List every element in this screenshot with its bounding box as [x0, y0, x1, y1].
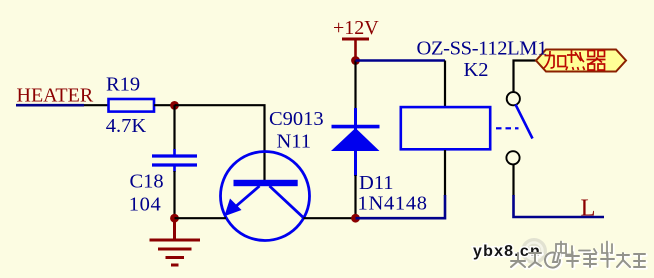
- svg-text:L: L: [581, 195, 596, 222]
- svg-text:1N4148: 1N4148: [358, 193, 428, 215]
- svg-text:ybx8.cn: ybx8.cn: [473, 243, 541, 260]
- wire emitter to ground junction: [175, 217, 227, 219]
- wire L net (navy): [514, 195, 605, 217]
- wire C18 bottom to ground junction: [173, 166, 176, 172]
- node ground junction: [170, 214, 179, 223]
- svg-text:C9013: C9013: [269, 108, 324, 130]
- wire switch common pin to flag: [514, 61, 537, 93]
- svg-text:R19: R19: [106, 74, 140, 96]
- wire +12V to relay coil top (navy): [356, 59, 446, 62]
- wire relay bottom pin: [444, 150, 446, 196]
- node +12V junction: [351, 56, 360, 65]
- svg-text:D11: D11: [359, 172, 394, 194]
- wire junction to transistor base (top run): [175, 105, 265, 181]
- wire R19 right pin: [154, 104, 176, 106]
- svg-text:104: 104: [129, 194, 162, 216]
- wire junction to C18 top: [173, 105, 175, 150]
- svg-text:C18: C18: [130, 171, 164, 193]
- svg-text:OZ-SS-112LM1: OZ-SS-112LM1: [417, 37, 548, 59]
- glyph 器: [587, 51, 606, 71]
- transistor Q N11 C9013: [221, 152, 310, 241]
- svg-text:K2: K2: [464, 59, 489, 81]
- wire relay bottom to junction (navy): [356, 195, 446, 218]
- wire +12V junction to diode cathode: [354, 61, 356, 113]
- resistor R19: [109, 99, 155, 112]
- switch contact top: [507, 92, 520, 105]
- glyph 加: [544, 51, 566, 68]
- switch blade: [516, 105, 533, 139]
- port flag 加热器: [536, 50, 626, 72]
- svg-text:HEATER: HEATER: [17, 85, 94, 107]
- wire switch bottom pin: [512, 164, 514, 196]
- watermark logo circle: [521, 238, 547, 264]
- node bottom junction: [351, 214, 360, 223]
- wire R19 left pin: [84, 104, 108, 106]
- capacitor C18: [152, 156, 197, 165]
- diode D11 1N4148: [331, 108, 380, 176]
- svg-text:N11: N11: [277, 131, 312, 153]
- wire relay top pin: [444, 61, 446, 107]
- switch contact bottom: [506, 151, 519, 164]
- watermark 电路一点通: [556, 242, 613, 258]
- svg-text:+12V: +12V: [333, 17, 379, 39]
- wire HEATER net (navy): [16, 104, 84, 107]
- glyph 热: [566, 50, 585, 70]
- node junction at R19/C18/base: [170, 101, 179, 110]
- watermark 头条@硬件大不同: [511, 252, 646, 269]
- wire collector to diode junction: [304, 217, 356, 219]
- relay K2 coil box: [401, 107, 490, 149]
- power +12V: [333, 17, 379, 59]
- ground: [150, 218, 201, 265]
- svg-text:4.7K: 4.7K: [106, 115, 147, 137]
- relay linkage dots: [496, 127, 519, 129]
- wire diode anode to bottom junction: [354, 175, 356, 220]
